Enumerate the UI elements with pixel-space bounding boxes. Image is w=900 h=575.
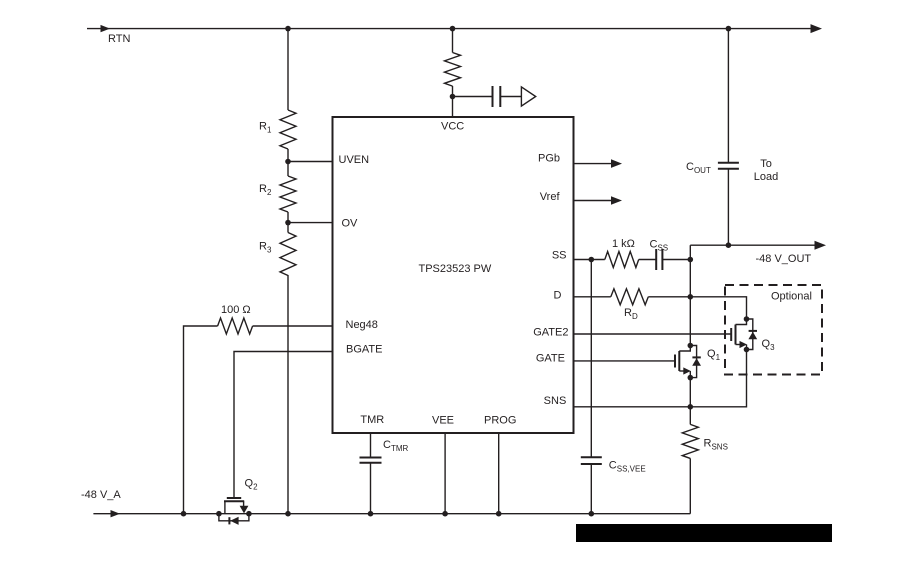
- svg-text:Vref: Vref: [540, 191, 561, 203]
- svg-text:Q3: Q3: [762, 338, 776, 352]
- svg-text:Optional: Optional: [771, 291, 812, 303]
- svg-text:SS: SS: [552, 250, 567, 262]
- arrow PGb output: [611, 159, 622, 168]
- resistor R3: [280, 233, 296, 276]
- node VCC junction: [450, 94, 456, 100]
- node junction RTN / VCC resistor: [450, 26, 456, 32]
- resistor R1: [280, 110, 296, 149]
- arrow RTN rail right end: [811, 24, 823, 33]
- capacitor VCC bypass: [493, 86, 501, 107]
- wire CSSVEE vertical: [590, 260, 592, 458]
- node OV junction: [285, 220, 291, 226]
- wire drain column SS node to Q1 drain: [689, 260, 691, 346]
- wire SS lead: [574, 259, 605, 261]
- resistor RSNS: [682, 424, 698, 458]
- arrow Vref output: [611, 196, 622, 205]
- node junction R3 column / rail: [285, 511, 291, 517]
- svg-text:RSNS: RSNS: [704, 438, 728, 452]
- node junction SNS / RSNS: [688, 404, 694, 410]
- node junction PROG / rail: [496, 511, 502, 517]
- transistor Q1: [675, 343, 701, 381]
- node junction CTMR / rail: [368, 511, 374, 517]
- resistor R2: [280, 176, 296, 212]
- wire Neg48 lead from resistor to IC: [253, 325, 333, 327]
- redaction black bar: [576, 524, 832, 542]
- node junction SS net / drain column: [688, 257, 694, 263]
- wire Vref output: [574, 200, 615, 202]
- wire RTN top rail: [87, 28, 814, 30]
- wire -48V_OUT rail: [690, 244, 818, 246]
- wire CSSVEE to bottom rail: [590, 464, 592, 514]
- svg-text:-48 V_A: -48 V_A: [81, 489, 121, 501]
- node junction RTN / COUT: [726, 26, 732, 32]
- svg-text:CTMR: CTMR: [383, 439, 409, 453]
- node junction COUT / -48V_OUT rail: [726, 242, 732, 248]
- wire SNS node to RSNS: [689, 407, 691, 425]
- svg-text:CSS: CSS: [650, 239, 669, 253]
- svg-text:PGb: PGb: [538, 153, 560, 165]
- wire Q1 source to SNS: [689, 378, 691, 407]
- wire RTN to COUT: [727, 29, 729, 163]
- resistor 1 kOhm: [605, 252, 639, 268]
- wire R3 down to bottom rail: [287, 275, 289, 514]
- svg-text:D: D: [554, 290, 562, 302]
- capacitor CSS: [656, 249, 662, 270]
- svg-text:PROG: PROG: [484, 415, 516, 427]
- node junction RTN / divider string: [285, 26, 291, 32]
- wire Neg48 left segment: [184, 326, 218, 514]
- wire R2 to R3: [287, 212, 289, 233]
- wire CSS to node: [662, 259, 690, 261]
- node junction Neg48 column / rail: [181, 511, 187, 517]
- svg-text:R1: R1: [259, 121, 272, 135]
- svg-text:Load: Load: [754, 171, 778, 183]
- svg-text:RTN: RTN: [108, 33, 130, 45]
- arrow -48V_A input direction: [111, 510, 121, 517]
- node junction CSSVEE / rail: [589, 511, 595, 517]
- wire BGATE lead to Q2 gate: [234, 352, 333, 499]
- capacitor COUT: [718, 163, 739, 169]
- svg-text:R3: R3: [259, 241, 272, 255]
- wire GATE2 lead to Q3 gate: [574, 333, 732, 335]
- svg-text:Neg48: Neg48: [346, 319, 378, 331]
- capacitor CSS,VEE: [581, 457, 602, 464]
- wire VEE pin to rail: [444, 433, 446, 514]
- wire GATE lead to Q1 gate: [574, 360, 675, 362]
- svg-text:Q2: Q2: [245, 478, 259, 492]
- svg-text:VEE: VEE: [432, 415, 454, 427]
- wire cap to buffer symbol: [500, 96, 521, 98]
- svg-text:GATE: GATE: [536, 352, 565, 364]
- node junction SS / CSSVEE: [589, 257, 595, 263]
- svg-text:R2: R2: [259, 183, 272, 197]
- resistor 100 Ohm: [218, 318, 253, 334]
- wire RSNS to bottom rail: [689, 458, 691, 513]
- svg-text:BGATE: BGATE: [346, 343, 382, 355]
- svg-text:100 Ω: 100 Ω: [221, 304, 251, 316]
- transistor Q3: [731, 316, 757, 352]
- wire -48V_OUT down to SS node: [689, 245, 691, 259]
- wire RTN to R1: [287, 29, 289, 110]
- buffer triangle symbol: [521, 87, 535, 106]
- svg-text:GATE2: GATE2: [533, 327, 568, 339]
- wire UVEN lead: [288, 161, 333, 163]
- svg-text:CSS,VEE: CSS,VEE: [609, 460, 646, 474]
- arrow RTN input direction: [101, 25, 111, 32]
- wire -48V_A rail: [93, 513, 690, 515]
- svg-text:TPS23523 PW: TPS23523 PW: [419, 263, 492, 275]
- svg-text:OV: OV: [342, 217, 359, 229]
- svg-text:-48 V_OUT: -48 V_OUT: [756, 253, 812, 265]
- wire VCC resistor to VCC pin: [452, 86, 454, 117]
- node junction VEE / rail: [442, 511, 448, 517]
- wire TMR pin to CTMR: [370, 433, 372, 458]
- node UVEN junction: [285, 159, 291, 165]
- op-amp U1 TPS23523 PW IC body: [333, 117, 574, 433]
- transistor Q2: [216, 498, 252, 525]
- wire R1 to R2: [287, 149, 289, 176]
- capacitor CTMR: [360, 458, 382, 463]
- resistor RD: [611, 289, 649, 305]
- wire RTN to VCC resistor: [452, 29, 454, 53]
- svg-text:VCC: VCC: [441, 121, 464, 133]
- svg-text:RD: RD: [624, 307, 638, 321]
- resistor VCC series: [445, 53, 461, 87]
- optional dashed box: [725, 285, 822, 375]
- wire VCC node to bypass cap: [453, 96, 493, 98]
- wire CTMR to bottom rail: [370, 463, 372, 514]
- wire PROG pin to rail: [498, 433, 500, 514]
- svg-text:COUT: COUT: [686, 161, 711, 175]
- wire OV lead: [288, 222, 333, 224]
- wire SNS lead to Q3 source: [574, 350, 747, 407]
- wire RD to Q3 drain: [648, 297, 746, 319]
- wire COUT to -48V_OUT rail: [727, 169, 729, 245]
- svg-text:Q1: Q1: [707, 348, 721, 362]
- svg-text:To: To: [760, 158, 772, 170]
- svg-text:UVEN: UVEN: [339, 154, 370, 166]
- svg-text:TMR: TMR: [360, 414, 384, 426]
- svg-text:1 kΩ: 1 kΩ: [612, 238, 635, 250]
- wire D lead: [574, 296, 611, 298]
- svg-text:SNS: SNS: [544, 395, 567, 407]
- wire 1k to CSS: [639, 259, 657, 261]
- arrow -48V_OUT right end: [815, 241, 827, 250]
- wire PGb output: [574, 163, 615, 165]
- node junction D net / drain column: [688, 294, 694, 300]
